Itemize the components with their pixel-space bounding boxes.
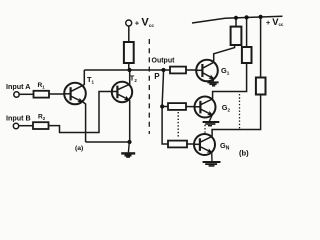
wire R8 to GN base: [187, 143, 194, 145]
transistor G1: [196, 60, 218, 82]
wire R2 to T2 base: [49, 92, 113, 133]
resistor R4 G1 base: [170, 67, 186, 74]
emitter ground rail: [86, 141, 130, 143]
junction dot rail R9: [259, 15, 263, 19]
resistor R2: [33, 122, 49, 129]
svg-text:G2: G2: [222, 103, 231, 113]
junction dot rail T2/R3: [127, 68, 131, 72]
wire T1 emitter: [82, 102, 85, 142]
junction dot rail R7: [245, 15, 249, 19]
resistor R5 G1 load: [231, 27, 242, 45]
transistor T2: [112, 82, 132, 102]
dotted continuation line left: [177, 112, 179, 138]
wire T1 collector: [83, 70, 85, 86]
resistor R8 GN base: [168, 141, 187, 148]
junction dot emitter rail: [127, 140, 131, 144]
wire input B to R2: [19, 125, 33, 127]
wire R3 to rail: [128, 63, 130, 70]
wire G1 collector to load R5: [214, 45, 235, 62]
svg-text:+ Vcc: + Vcc: [266, 16, 284, 27]
wire R9 to supply rail: [260, 17, 262, 78]
ground G2: [203, 115, 220, 126]
resistor R3 collector load: [124, 42, 134, 63]
svg-text:R1: R1: [38, 82, 46, 89]
svg-text:P: P: [154, 72, 160, 81]
resistor R6 G2 base: [168, 103, 186, 110]
svg-text:G1: G1: [221, 66, 230, 76]
ground G1: [207, 79, 218, 86]
wire bus to R6: [162, 106, 168, 108]
junction dot rail R5: [234, 16, 238, 20]
collector rail / output wire: [84, 69, 170, 71]
ground GN: [203, 152, 221, 166]
wire GN collector to load R9: [212, 95, 261, 137]
resistor R1: [34, 91, 50, 98]
svg-text:(b): (b): [239, 149, 249, 158]
supply rail +Vcc (b): [192, 16, 283, 23]
bus wire from node P down: [162, 70, 168, 144]
wire T2 emitter: [128, 100, 131, 142]
junction dot bus G2: [160, 104, 164, 108]
svg-text:T2: T2: [130, 74, 138, 83]
wire R5 to supply rail: [235, 18, 237, 27]
wire G2 collector to load R7: [212, 63, 246, 99]
ground (a): [121, 142, 135, 157]
wire R4 to G1 base: [186, 69, 196, 71]
svg-text:+ Vcc: + Vcc: [135, 17, 155, 29]
svg-text:Input B: Input B: [6, 114, 31, 123]
wire Vcc to collector load R3: [128, 26, 130, 42]
wire R7 to supply rail: [246, 17, 248, 47]
svg-text:T1: T1: [87, 75, 95, 84]
transistor T1: [64, 83, 86, 105]
wire T2 collector: [128, 70, 131, 85]
wire R1 to T1 base: [49, 93, 65, 95]
boundary dashed line: [148, 39, 150, 134]
dotted continuation line right: [239, 94, 241, 129]
wire R6 to G2 base: [186, 106, 195, 108]
svg-text:(a): (a): [75, 145, 83, 152]
dotted continuation line below G2: [204, 125, 206, 134]
node P dot: [161, 68, 165, 72]
resistor R7 G2 load: [242, 47, 252, 63]
svg-text:R2: R2: [38, 114, 46, 121]
transistor G2: [195, 97, 216, 118]
resistor R9 GN load: [256, 78, 266, 95]
svg-text:Output: Output: [152, 58, 176, 65]
svg-text:GN: GN: [220, 141, 230, 152]
svg-text:Input A: Input A: [6, 82, 30, 91]
supply terminal +Vcc (a): [126, 20, 132, 26]
wire input A to R1: [19, 93, 33, 95]
input terminal B: [13, 123, 18, 128]
transistor GN: [194, 134, 215, 155]
input terminal A: [14, 92, 19, 97]
